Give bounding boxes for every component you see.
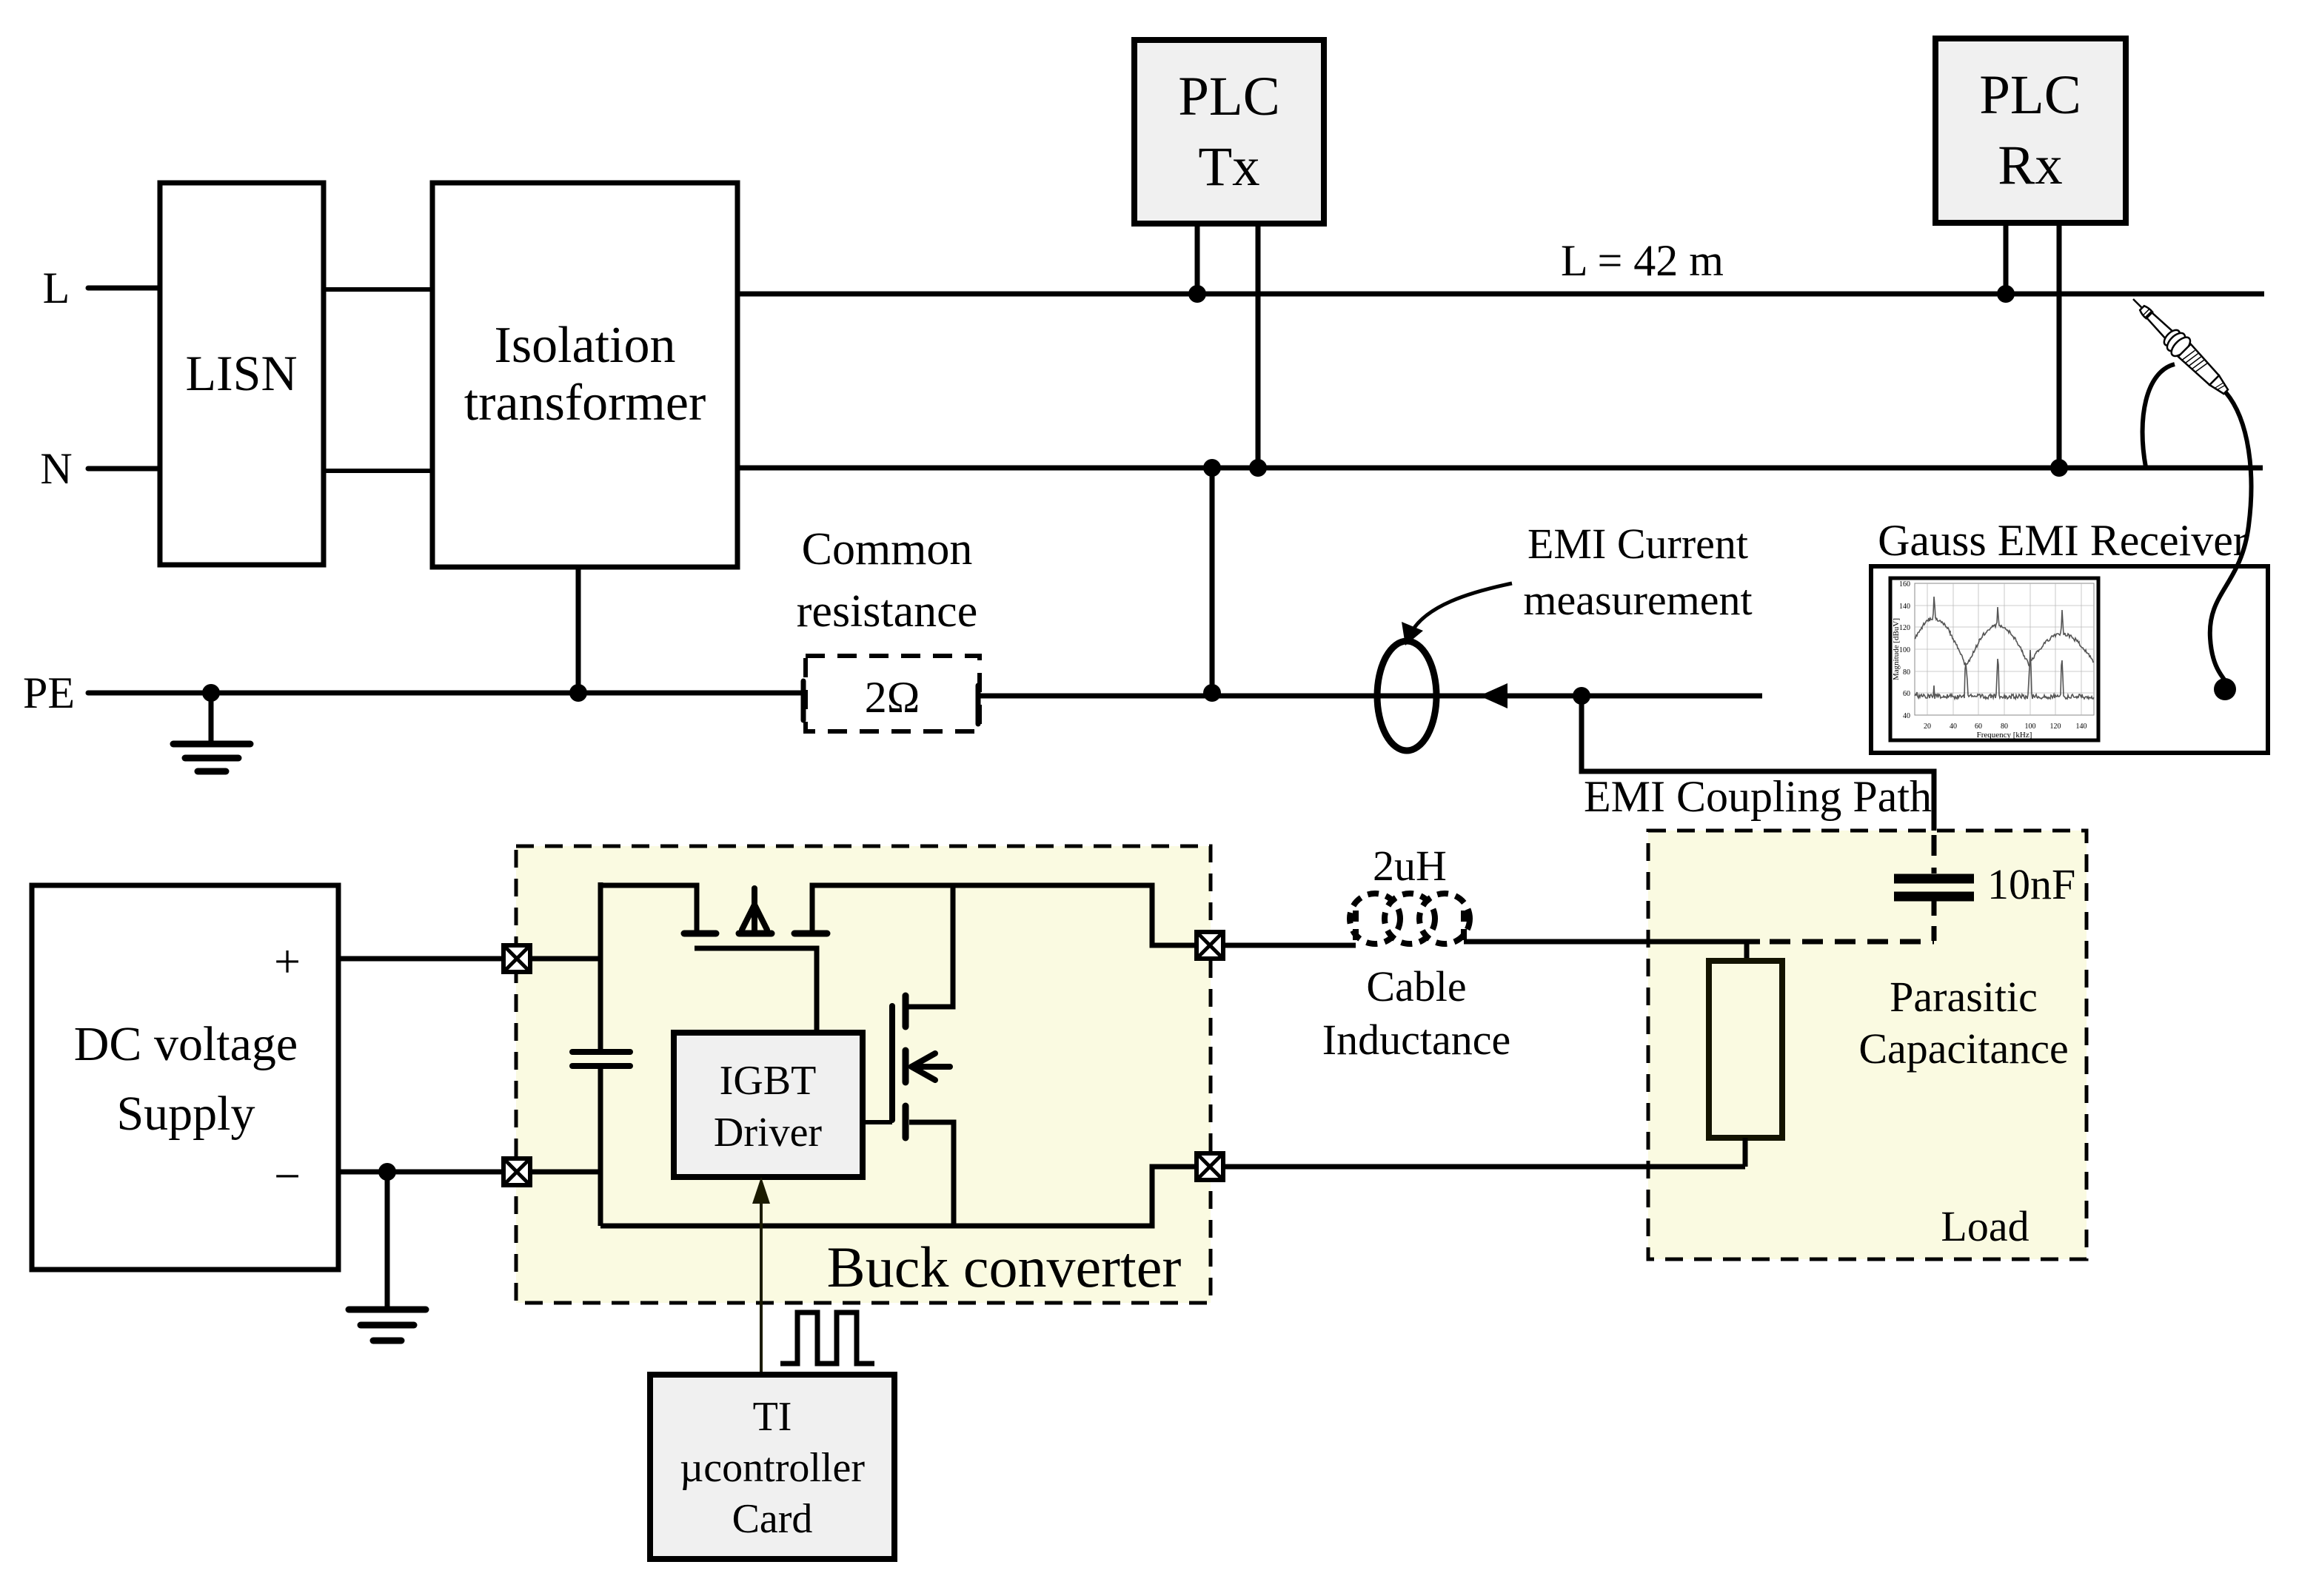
arrow into driver xyxy=(752,1177,770,1204)
transistor Q2 body arrow xyxy=(911,1053,950,1080)
resistor R common 2ohm dashed box xyxy=(806,656,980,731)
probe cable to N xyxy=(2143,364,2175,467)
probe cable to receiver xyxy=(2210,392,2252,680)
wire Q2 source xyxy=(909,1122,954,1226)
junction PE-ground xyxy=(202,684,220,702)
wire TI-to-driver xyxy=(760,1193,763,1375)
svg-text:Inductance: Inductance xyxy=(1322,1016,1510,1064)
DC voltage supply box xyxy=(32,885,338,1270)
wire driver-to-Q2 gate xyxy=(863,1120,892,1124)
svg-text:2uH: 2uH xyxy=(1373,842,1447,890)
svg-text:120: 120 xyxy=(1899,624,1910,632)
transistor Q1 gate bar xyxy=(695,948,817,1033)
svg-text:Capacitance: Capacitance xyxy=(1858,1025,2068,1073)
svg-text:L: L xyxy=(43,264,70,312)
svg-text:EMI Coupling Path: EMI Coupling Path xyxy=(1584,772,1932,821)
resistor R load xyxy=(1709,961,1782,1138)
svg-text:100: 100 xyxy=(1899,646,1910,654)
oscilloscope probe xyxy=(2125,291,2235,400)
transistor Q1 body arrow xyxy=(742,888,767,931)
EMI current probe ellipse xyxy=(1377,641,1436,751)
svg-text:EMI Current: EMI Current xyxy=(1527,520,1748,568)
junction PLC Tx on L xyxy=(1188,285,1206,303)
svg-text:PE: PE xyxy=(23,668,75,717)
svg-text:Driver: Driver xyxy=(714,1110,823,1156)
junction PLC Rx on L xyxy=(1997,285,2015,303)
svg-text:120: 120 xyxy=(2050,722,2061,731)
wire EMI coupling path xyxy=(1582,696,1934,835)
buck converter dashed box xyxy=(516,846,1211,1303)
wire bottom rail xyxy=(600,1167,1198,1226)
ground PE left xyxy=(209,693,214,744)
svg-text:N: N xyxy=(40,444,72,493)
wire Q2 drain xyxy=(908,885,953,1007)
svg-text:−: − xyxy=(274,1150,301,1202)
wire cap 10nF lower dashed xyxy=(1932,901,1937,942)
svg-text:40: 40 xyxy=(1903,712,1910,720)
resistor 2ohm left terminal xyxy=(801,681,806,720)
svg-text:Rx: Rx xyxy=(1998,135,2063,196)
svg-text:TI: TI xyxy=(753,1394,792,1440)
feedthrough input plus xyxy=(503,945,530,972)
wire L LISN-to-transformer xyxy=(324,287,432,292)
leader arrow to probe xyxy=(1411,583,1512,634)
wire PE right segment xyxy=(978,694,1762,699)
svg-text:Buck converter: Buck converter xyxy=(827,1235,1182,1299)
junction transformer-PE xyxy=(569,684,587,702)
svg-text:60: 60 xyxy=(1975,722,1982,731)
svg-text:Magnitude [dBuV]: Magnitude [dBuV] xyxy=(1892,618,1901,680)
junction PLC Rx on N xyxy=(2050,459,2068,477)
junction PLC Tx on N xyxy=(1249,459,1267,477)
transistor Q1 drain bar xyxy=(794,931,827,937)
svg-text:Parasitic: Parasitic xyxy=(1890,973,2038,1021)
svg-text:IGBT: IGBT xyxy=(720,1058,817,1104)
junction PE-coupling xyxy=(1573,687,1590,705)
junction PE vertical xyxy=(1203,684,1221,702)
wire cap branch upper xyxy=(598,882,603,1052)
spectrum upper trace xyxy=(1915,597,2093,666)
PWM signal symbol xyxy=(780,1312,874,1364)
svg-text:Common: Common xyxy=(802,524,973,574)
Gauss EMI receiver box xyxy=(1871,566,2268,753)
svg-text:PLC: PLC xyxy=(1979,64,2081,126)
svg-text:Frequency [kHz]: Frequency [kHz] xyxy=(1977,731,2032,740)
wire load resistor top stub xyxy=(1744,942,1750,962)
feedthrough input minus xyxy=(503,1159,530,1185)
inductor L1 2uH xyxy=(1350,893,1470,944)
wire minus-to-ground xyxy=(385,1172,390,1310)
wire load resistor bottom stub xyxy=(1743,1138,1748,1167)
wire cap 10nF upper dashed xyxy=(1932,835,1937,874)
capacitor C2 10nF xyxy=(1894,874,1974,884)
svg-text:80: 80 xyxy=(2001,722,2008,731)
svg-text:40: 40 xyxy=(1950,722,1957,731)
svg-text:Supply: Supply xyxy=(116,1087,255,1141)
junction N vertical xyxy=(1203,459,1221,477)
svg-text:DC voltage: DC voltage xyxy=(74,1017,298,1071)
LISN box U1 xyxy=(160,183,324,565)
svg-text:160: 160 xyxy=(1899,580,1910,589)
wire DC plus xyxy=(338,956,504,962)
svg-text:+: + xyxy=(274,935,301,988)
wire cap branch lower xyxy=(598,1066,603,1226)
capacitor C1 input xyxy=(572,1049,630,1055)
wire N transformer-to-end xyxy=(737,466,2263,471)
svg-text:2Ω: 2Ω xyxy=(865,673,920,722)
svg-text:20: 20 xyxy=(1924,722,1931,731)
wire top rail right xyxy=(812,885,1198,945)
svg-text:100: 100 xyxy=(2025,722,2036,731)
wire N input xyxy=(88,466,160,472)
svg-text:Cable: Cable xyxy=(1366,962,1466,1010)
wire top rail left xyxy=(598,885,697,931)
spectrum grid xyxy=(1915,583,2094,715)
wire PE line left xyxy=(88,691,803,696)
svg-text:Load: Load xyxy=(1941,1202,2029,1250)
svg-text:Tx: Tx xyxy=(1198,136,1259,198)
svg-text:Card: Card xyxy=(732,1496,813,1542)
wire N LISN-to-transformer xyxy=(324,469,432,473)
wire PLC Rx left lead xyxy=(2004,223,2009,294)
svg-text:resistance: resistance xyxy=(797,586,977,637)
wire N-to-PE vertical xyxy=(1210,468,1215,693)
spectrum plot area xyxy=(1915,583,2094,715)
svg-text:140: 140 xyxy=(1899,603,1910,611)
wire dashed cap-to-node xyxy=(1770,939,1934,945)
wire output top xyxy=(1223,943,1356,948)
spectrum chart frame xyxy=(1890,578,2098,740)
wire transformer-to-PE stub xyxy=(576,567,581,693)
wire PLC Tx left lead xyxy=(1195,224,1200,294)
svg-text:LISN: LISN xyxy=(185,345,297,401)
transistor Q1 body bar xyxy=(739,931,772,937)
load dashed box xyxy=(1648,831,2087,1259)
spectrum lower trace xyxy=(1915,650,2094,699)
TI microcontroller card box U3 xyxy=(650,1375,894,1559)
PLC Tx box xyxy=(1134,40,1324,224)
svg-text:L = 42 m: L = 42 m xyxy=(1561,236,1724,285)
svg-text:80: 80 xyxy=(1903,668,1910,677)
banana plug dot xyxy=(2214,678,2236,700)
load box fill underlay xyxy=(1648,831,2087,1259)
wire minus inside xyxy=(530,1170,602,1175)
feedthrough output bottom xyxy=(1197,1153,1223,1180)
transistor Q2 channel segments xyxy=(903,996,909,1138)
wire plus inside xyxy=(530,956,600,962)
ground DC supply xyxy=(349,1307,426,1313)
spectrum axis labels xyxy=(1892,580,2087,740)
svg-text:Isolation: Isolation xyxy=(495,317,676,374)
junction DC minus ground xyxy=(378,1163,396,1181)
svg-text:PLC: PLC xyxy=(1178,66,1280,127)
wire inductor-to-load xyxy=(1464,939,1760,945)
svg-text:transformer: transformer xyxy=(464,375,706,432)
PLC Rx box xyxy=(1935,38,2126,223)
svg-text:60: 60 xyxy=(1903,690,1910,698)
svg-text:measurement: measurement xyxy=(1523,576,1752,624)
transistor Q2 gate bar xyxy=(889,1006,895,1120)
svg-text:140: 140 xyxy=(2076,722,2087,731)
svg-text:Gauss EMI Receiver: Gauss EMI Receiver xyxy=(1878,516,2248,565)
svg-text:10nF: 10nF xyxy=(1987,860,2075,908)
wire L transformer-to-end xyxy=(737,292,2264,297)
wire PLC Rx right lead xyxy=(2057,223,2062,468)
wire output bottom xyxy=(1223,1164,1745,1170)
wire PLC Tx right lead xyxy=(1256,224,1261,468)
svg-text:µcontroller: µcontroller xyxy=(680,1445,865,1491)
wire DC minus xyxy=(338,1170,504,1175)
resistor 2ohm right terminal xyxy=(976,685,981,724)
arrow EMI current direction xyxy=(1479,683,1507,708)
wire L input xyxy=(88,286,160,291)
feedthrough output top xyxy=(1197,932,1223,959)
isolation transformer T1 xyxy=(432,183,737,567)
IGBT driver box U2 xyxy=(674,1033,863,1177)
transistor Q1 source bar xyxy=(684,931,716,937)
